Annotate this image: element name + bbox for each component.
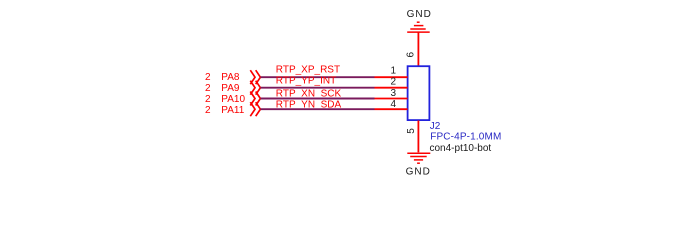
wire RTP_XN_SCK: [261, 98, 375, 100]
svg-text:2: 2: [205, 105, 211, 116]
pin 4 stub: [375, 108, 408, 110]
wire J2 pin 5 to GND: [417, 121, 419, 153]
connector J2 body: [408, 66, 430, 120]
svg-text:2: 2: [205, 72, 211, 83]
off-page connector PA9 (page 2): [205, 81, 260, 95]
svg-text:PA10: PA10: [221, 94, 245, 105]
svg-text:PA8: PA8: [221, 72, 240, 83]
wire RTP_YN_SDA: [261, 108, 375, 110]
wire RTP_YP_INT: [261, 87, 375, 89]
wire RTP_XP_RST: [261, 76, 375, 78]
off-page connector PA8 (page 2): [205, 70, 260, 84]
svg-text:2: 2: [390, 77, 396, 88]
svg-text:4: 4: [390, 99, 396, 110]
wire GND to J2 pin 6: [417, 32, 419, 66]
pin 2 stub: [375, 87, 408, 89]
svg-text:5: 5: [406, 128, 417, 134]
svg-text:FPC-4P-1.0MM: FPC-4P-1.0MM: [430, 132, 501, 143]
svg-text:RTP_XP_RST: RTP_XP_RST: [276, 64, 340, 75]
svg-text:J2: J2: [430, 121, 441, 132]
off-page connector PA10 (page 2): [205, 92, 260, 106]
ground symbol (top, inverted): [407, 22, 430, 32]
pin 1 stub: [375, 76, 408, 78]
svg-text:2: 2: [205, 94, 211, 105]
svg-text:RTP_YP_INT: RTP_YP_INT: [276, 75, 336, 86]
svg-text:1: 1: [390, 65, 396, 76]
pin 3 stub: [375, 98, 408, 100]
off-page connector PA11 (page 2): [205, 102, 260, 116]
svg-text:2: 2: [205, 83, 211, 94]
svg-text:6: 6: [406, 51, 417, 57]
svg-text:GND: GND: [406, 167, 431, 178]
svg-text:3: 3: [390, 88, 396, 99]
ground symbol (bottom): [407, 153, 430, 163]
svg-text:PA9: PA9: [221, 83, 240, 94]
svg-text:PA11: PA11: [221, 105, 244, 116]
svg-text:con4-pt10-bot: con4-pt10-bot: [430, 143, 492, 154]
svg-text:GND: GND: [407, 9, 432, 20]
